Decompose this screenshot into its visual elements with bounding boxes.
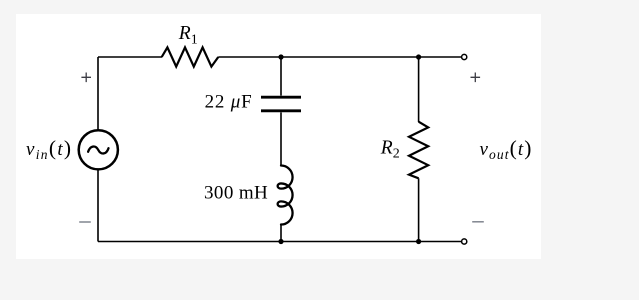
svg-text:vin(t): vin(t) <box>26 136 72 162</box>
wire left upper <box>97 57 99 130</box>
voltage source U1 vin <box>79 130 118 169</box>
minus sign left <box>79 221 91 223</box>
output terminal top (open circle) <box>462 54 467 59</box>
output terminal bottom (open circle) <box>462 239 467 244</box>
resistor R1 <box>162 47 219 66</box>
node A (top middle junction) <box>278 54 283 59</box>
minus sign right <box>472 221 484 223</box>
wire middle: node A to capacitor <box>280 57 282 96</box>
resistor R2 <box>409 122 428 179</box>
wire top: source to R1 <box>98 56 162 58</box>
wire right upper: node B to R2 <box>418 57 420 122</box>
plus sign right <box>471 73 481 83</box>
wire top: node A to node B <box>281 56 419 58</box>
sine symbol of source <box>88 147 108 154</box>
node B (top right junction) <box>416 54 421 59</box>
wire top: node B to output terminal <box>419 56 462 58</box>
inductor L1 300mH <box>278 166 293 225</box>
node C (bottom middle junction) <box>278 239 283 244</box>
wire top: R1 to node A <box>218 56 281 58</box>
capacitor C1 22uF plates <box>261 96 301 99</box>
wire middle: inductor to node C <box>280 224 282 241</box>
wire right lower: R2 to node D <box>418 178 420 241</box>
wire middle: capacitor to inductor <box>280 112 282 165</box>
svg-text:22 μF: 22 μF <box>205 92 253 113</box>
plus sign left <box>81 73 91 83</box>
wire bottom <box>98 241 462 243</box>
svg-text:300 mH: 300 mH <box>204 183 268 204</box>
wire left lower <box>97 169 99 241</box>
node D (bottom right junction) <box>416 239 421 244</box>
